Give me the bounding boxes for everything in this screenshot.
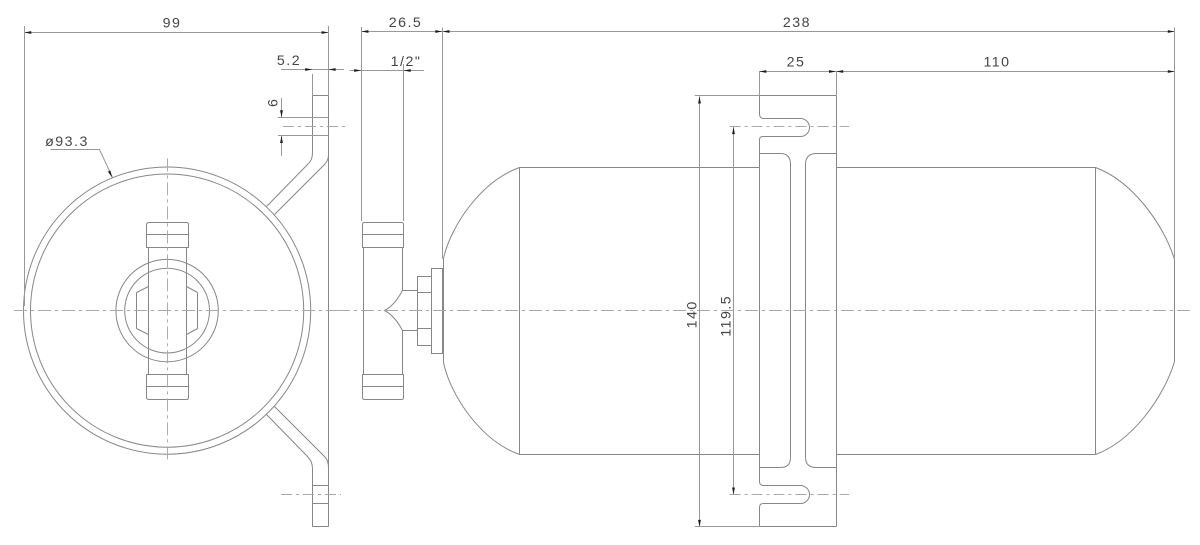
cylinder top edge left of bracket <box>519 167 759 169</box>
front vertical centerline <box>167 158 169 462</box>
dimension 238 <box>442 31 1175 33</box>
fitting cone <box>385 291 403 331</box>
dimension 1/2" <box>350 70 424 72</box>
dimension 26.5 <box>361 31 442 33</box>
svg-text:ø93.3: ø93.3 <box>45 134 89 150</box>
flange left edge lower piece <box>760 504 764 527</box>
front view: outer rim circle o93.3 <box>24 167 311 454</box>
left dome <box>444 168 520 455</box>
hose tube top barb collar <box>147 223 189 248</box>
bottom slot centerline front <box>281 494 341 496</box>
side extension lines <box>361 27 363 221</box>
center boss outer circle <box>116 259 218 361</box>
dim 5.2 extension line <box>312 74 314 96</box>
dimension 140 <box>699 96 701 527</box>
side tube body right edge upper <box>402 247 404 290</box>
side horizontal centerline <box>337 310 1190 312</box>
fitting flange disk <box>432 269 443 354</box>
bracket top tab outer edge and arm <box>267 96 313 207</box>
bottom shoulder line right <box>806 458 837 468</box>
dimension 5.2 <box>281 69 344 71</box>
flange right edge <box>836 96 838 527</box>
flange bottom edge <box>760 526 837 528</box>
bracket bottom tab outer edge and arm <box>267 415 313 527</box>
svg-text:25: 25 <box>787 55 806 71</box>
top shoulder line left <box>760 154 791 165</box>
bracket bottom tab bottom edge <box>312 526 328 528</box>
bottom keyhole slot <box>764 486 810 504</box>
dimension 6 (slot height) <box>281 98 283 118</box>
dimension 110 <box>836 71 1175 73</box>
cylinder top edge right of bracket <box>836 167 1095 169</box>
fitting neck lines <box>403 291 418 331</box>
dimension 119.5 <box>733 127 735 495</box>
top keyhole slot <box>764 119 810 137</box>
svg-text:26.5: 26.5 <box>389 15 423 31</box>
svg-text:5.2: 5.2 <box>277 53 301 69</box>
bracket top arm inner edge <box>275 155 329 215</box>
bracket top tab top edge <box>312 95 328 97</box>
top shoulder line right <box>806 154 837 165</box>
strap left vertical <box>790 164 792 457</box>
front view: inner shell circle <box>31 174 304 447</box>
svg-text:1/2": 1/2" <box>391 54 422 70</box>
bracket plate edge-on vertical <box>328 96 330 527</box>
front horizontal centerline <box>14 310 348 312</box>
right dome <box>1096 168 1175 455</box>
dimension 25 <box>759 71 836 73</box>
strap right vertical <box>805 164 807 457</box>
flange top edge <box>760 95 837 97</box>
top slot centerline side <box>730 126 850 128</box>
svg-text:140: 140 <box>685 300 701 328</box>
cylinder bottom edge left of bracket <box>519 454 759 456</box>
side tube body right edge lower <box>402 330 404 374</box>
dim 99 extension lines <box>24 26 26 306</box>
svg-text:119.5: 119.5 <box>718 295 734 337</box>
side tube body left edge <box>363 247 365 374</box>
hex nut flats <box>137 293 198 329</box>
fitting nut hex flat lines <box>418 293 432 329</box>
top slot centerline front <box>283 126 346 128</box>
svg-text:6: 6 <box>266 98 282 107</box>
side tube top barb collar <box>363 223 404 248</box>
hose tube bottom collar ring line <box>147 386 189 388</box>
fitting nut <box>418 277 432 346</box>
right weld seam <box>1095 167 1097 454</box>
side tube bottom barb collar <box>363 375 404 400</box>
bracket top tab slot edges <box>278 117 329 119</box>
flange left edge mid piece <box>760 137 764 486</box>
hose tube body left edge <box>148 247 150 374</box>
svg-text:110: 110 <box>983 55 1010 71</box>
cylinder bottom edge right of bracket <box>836 454 1095 456</box>
hex nut chamfer edges <box>137 287 198 335</box>
left weld seam <box>519 167 521 454</box>
svg-text:99: 99 <box>163 16 182 32</box>
hose tube top collar ring line <box>147 234 189 236</box>
bottom slot centerline side <box>730 494 850 496</box>
svg-text:238: 238 <box>783 15 811 31</box>
bracket bottom tab slot edges <box>312 485 328 487</box>
flange left edge upper piece with slot entrance <box>760 96 764 119</box>
hose tube bottom barb collar <box>147 375 189 400</box>
dimension 99 <box>24 32 329 34</box>
center boss inner circle <box>125 268 210 353</box>
bottom shoulder line left <box>760 458 791 468</box>
hose tube body right edge <box>186 247 188 374</box>
bracket bottom arm inner edge <box>275 407 329 468</box>
